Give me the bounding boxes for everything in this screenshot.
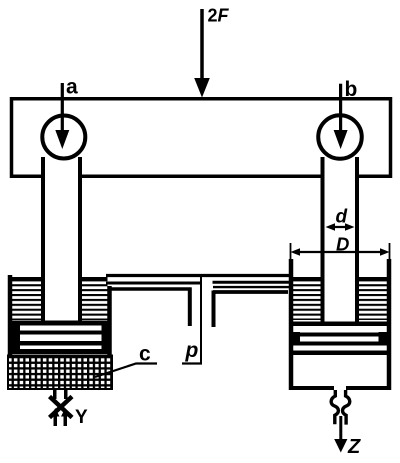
leader line c bbox=[95, 364, 157, 378]
drain valve Y bbox=[50, 389, 73, 426]
svg-text:a: a bbox=[66, 76, 78, 99]
force arrow a bbox=[55, 83, 69, 149]
piston rod left bbox=[43, 150, 80, 322]
svg-text:Y: Y bbox=[75, 407, 88, 428]
cylinder right walls bbox=[289, 259, 391, 390]
hydraulic fluid hatching right bbox=[293, 278, 387, 320]
piston right bbox=[289, 322, 390, 356]
dimension d bbox=[326, 223, 355, 231]
svg-text:2F: 2F bbox=[208, 6, 230, 26]
drain break symbol right bbox=[331, 390, 350, 425]
svg-text:c: c bbox=[139, 343, 151, 366]
pressure tap leader p bbox=[182, 277, 202, 365]
piston rod right bbox=[323, 150, 358, 322]
roller bearing b bbox=[318, 115, 362, 159]
connecting pipe bbox=[106, 276, 292, 328]
dimension D bbox=[291, 243, 390, 261]
hydraulic fluid hatching left bbox=[12, 278, 108, 320]
svg-text:d: d bbox=[336, 207, 348, 228]
piston left bbox=[12, 321, 112, 355]
force arrow 2F bbox=[194, 9, 210, 98]
crossbeam bbox=[12, 99, 391, 177]
flow arrow Z bbox=[334, 416, 347, 453]
elastic pad c crosshatch block bbox=[8, 356, 112, 390]
svg-text:p: p bbox=[185, 339, 199, 362]
svg-text:D: D bbox=[336, 234, 349, 255]
force arrow b bbox=[334, 84, 348, 149]
cylinder left walls bbox=[8, 275, 112, 389]
svg-text:Z: Z bbox=[347, 436, 361, 458]
svg-text:b: b bbox=[345, 78, 358, 101]
roller bearing a bbox=[42, 116, 85, 159]
